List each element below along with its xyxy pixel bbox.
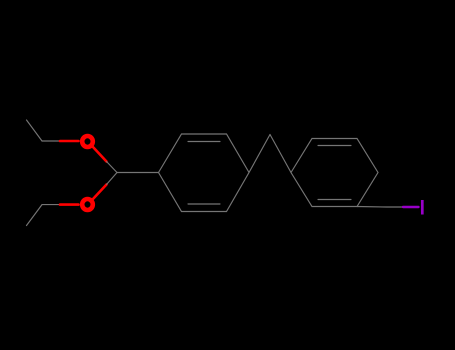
- I iodine atom label: [421, 200, 424, 215]
- ring1 inner double bond line bottom: [188, 203, 220, 205]
- wire: bridge CH2 to ring2 bond: [270, 135, 291, 173]
- O2 oxygen atom label: [82, 199, 93, 210]
- wire: top ethyl CH2-O1 bond red half: [60, 140, 79, 143]
- wire: O2-CH bond gray half: [107, 173, 118, 185]
- ring2 inner double bond line bottom: [318, 199, 351, 201]
- wire: C-I bond purple half: [403, 206, 419, 208]
- wire: O2-CH bond red half: [93, 185, 107, 200]
- wire: CH to ring1 bond: [117, 172, 159, 174]
- ring1 benzene hexagon: [159, 134, 250, 212]
- wire: ring2 BR to CH2I carbon bond: [357, 206, 403, 209]
- wire: top ethyl CH2-O1 bond gray half: [42, 140, 60, 142]
- wire: bottom ethyl CH3-CH2 bond: [27, 205, 43, 226]
- wire: ring1 to bridge CH2 bond: [249, 135, 270, 173]
- ring1 inner double bond line top: [188, 141, 220, 143]
- ring2 benzene hexagon: [291, 139, 378, 207]
- wire: top ethyl CH3-CH2 bond: [27, 120, 43, 141]
- ring2 inner double bond line top: [318, 145, 351, 147]
- wire: bottom ethyl CH2-O2 bond red half: [60, 203, 79, 206]
- wire: O1-CH bond red half: [93, 147, 107, 162]
- wire: bottom ethyl CH2-O2 bond gray half: [42, 204, 60, 206]
- O1 oxygen atom label: [82, 136, 93, 147]
- wire: O1-CH bond gray half: [107, 162, 118, 173]
